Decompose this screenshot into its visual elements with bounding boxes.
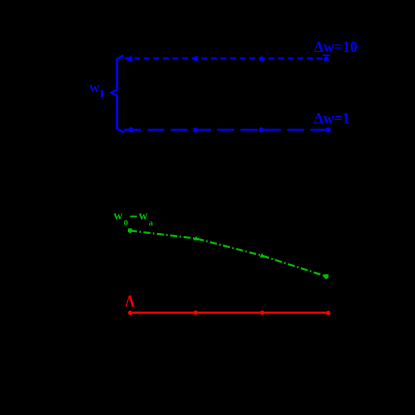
label w_0 - w_a (green) [114, 208, 154, 227]
svg-text:0: 0 [124, 218, 128, 228]
wire: bottom long-dashed blue line (Delta w = 1) [124, 129, 329, 131]
node markers on bottom line (circles) [129, 127, 331, 132]
svg-text:Δw=10: Δw=10 [314, 39, 358, 56]
brace (blue curly brace) [112, 55, 125, 132]
wire: top short-dashed blue line (Delta w = 10) [125, 58, 328, 60]
node markers on green curve [128, 228, 329, 279]
svg-text:a: a [149, 218, 154, 228]
svg-text:Δw=1: Δw=1 [314, 110, 350, 127]
node markers on top line (pentagons) [128, 56, 328, 61]
svg-text:w: w [89, 80, 100, 96]
svg-text:Λ: Λ [125, 292, 135, 311]
label w_l (blue, left of brace) [89, 80, 103, 97]
underline mark under w of Dw=10 [323, 55, 330, 57]
node markers on red line (circles) [128, 311, 330, 316]
svg-text:w: w [114, 208, 123, 222]
wire: green dash-dot curve [130, 231, 327, 277]
svg-text:w: w [139, 208, 148, 222]
wire: red solid line [130, 312, 329, 314]
